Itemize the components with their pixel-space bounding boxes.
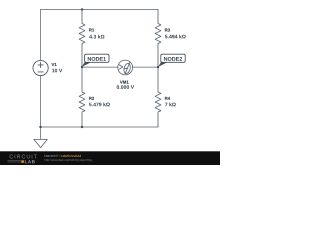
label R2 value bbox=[89, 103, 110, 107]
resistor R1 bbox=[79, 10, 85, 68]
footer text line1 title bbox=[61, 155, 81, 157]
node junction dot ground bbox=[39, 126, 41, 128]
node NODE1 flag box bbox=[85, 54, 109, 62]
label R1 value bbox=[89, 35, 104, 39]
node NODE1 flag text bbox=[88, 57, 106, 61]
node junction dot bottom R2 bbox=[81, 126, 83, 128]
wire top rail bbox=[41, 9, 159, 11]
footer logo CIRCUIT bbox=[10, 155, 37, 159]
label R4 value bbox=[165, 103, 176, 107]
label R1 bbox=[89, 28, 94, 31]
node NODE2 flag text bbox=[164, 57, 182, 61]
footer text line1 user bbox=[45, 155, 60, 157]
resistor R3 bbox=[155, 10, 161, 68]
label R3 value bbox=[165, 35, 186, 39]
node junction dot NODE1 bbox=[81, 66, 83, 68]
footer logo stripes bbox=[8, 161, 22, 163]
resistor R4 bbox=[155, 67, 161, 127]
label V1 value bbox=[52, 69, 62, 73]
label R2 bbox=[89, 97, 94, 100]
wire left rail upper bbox=[40, 10, 42, 61]
footer logo orange block bbox=[21, 160, 24, 163]
resistor R2 bbox=[79, 67, 85, 127]
voltmeter VM1 bbox=[118, 60, 133, 75]
node NODE2 flag pointer bbox=[158, 62, 168, 67]
node NODE1 flag pointer bbox=[82, 62, 92, 67]
label V1 bbox=[52, 63, 57, 66]
footer logo LAB bbox=[25, 160, 35, 163]
wire bottom rail bbox=[41, 126, 159, 128]
wire middle left bbox=[82, 66, 118, 68]
footer text line2 url bbox=[45, 159, 93, 162]
ground bbox=[34, 139, 47, 147]
label R3 bbox=[165, 29, 170, 32]
node NODE2 flag box bbox=[161, 54, 185, 62]
wire left rail lower bbox=[40, 76, 42, 140]
voltage source V1 bbox=[33, 60, 48, 75]
node junction dot NODE2 bbox=[157, 66, 159, 68]
label VM1 bbox=[120, 81, 129, 84]
wire middle right bbox=[133, 66, 159, 68]
label VM1 value bbox=[117, 85, 134, 89]
footer bar bbox=[0, 151, 220, 165]
node junction dot top bbox=[81, 8, 83, 10]
label R4 bbox=[165, 97, 170, 100]
